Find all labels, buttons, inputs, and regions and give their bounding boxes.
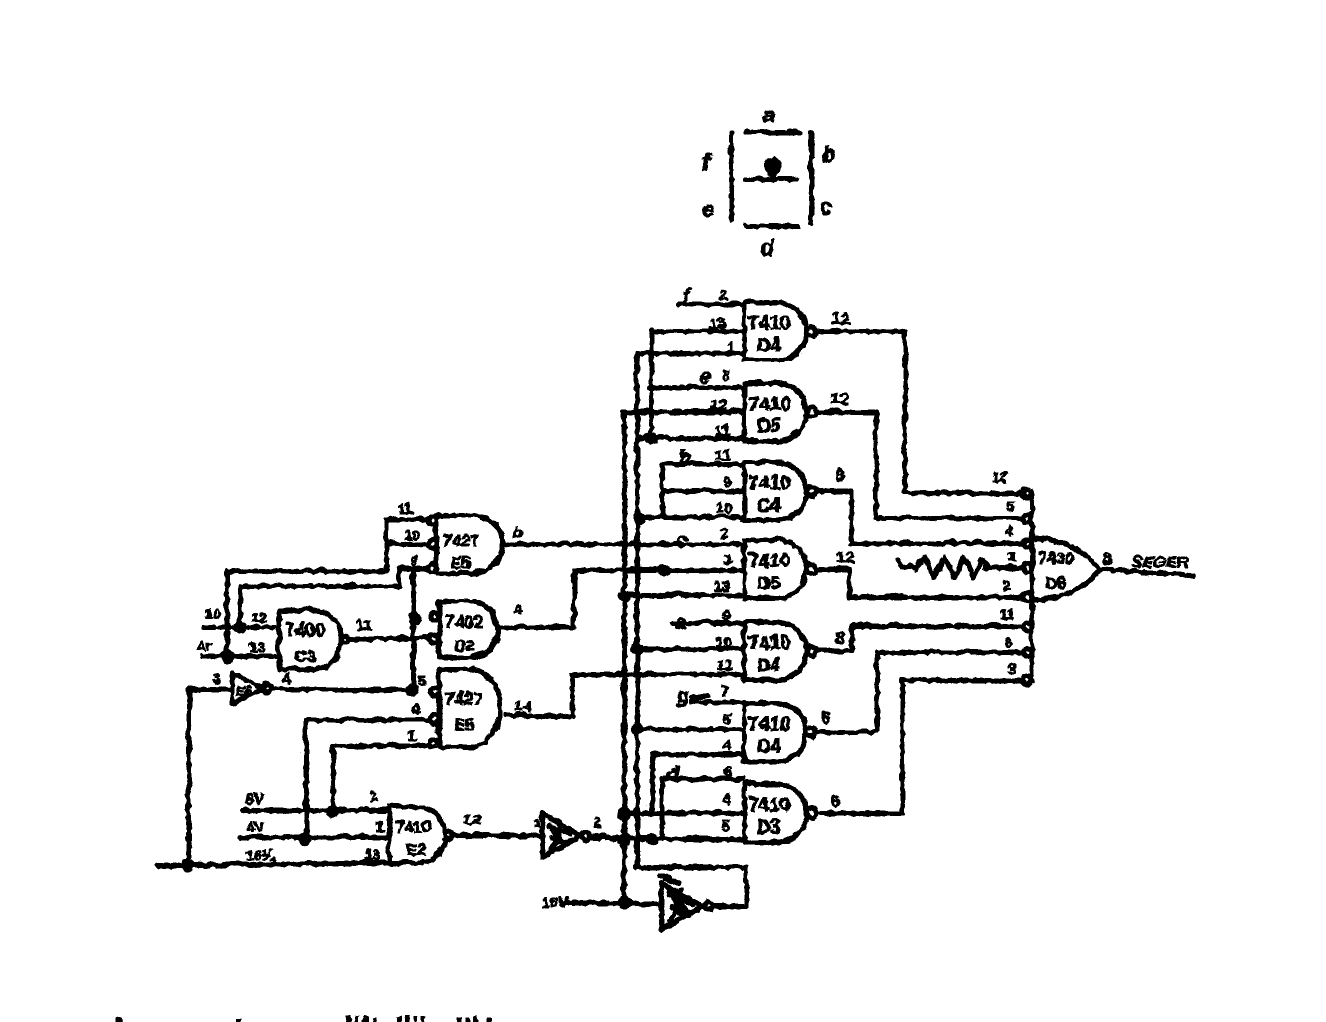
svg-text:SEGER: SEGER [1131, 553, 1187, 570]
svg-text:1: 1 [1007, 547, 1015, 563]
svg-text:4: 4 [281, 669, 290, 686]
svg-text:10: 10 [204, 604, 220, 620]
svg-text:8: 8 [1101, 548, 1110, 567]
svg-text:16V: 16V [540, 893, 567, 910]
svg-text:5: 5 [416, 672, 424, 689]
svg-text:13: 13 [708, 314, 725, 331]
svg-text:7410: 7410 [747, 393, 789, 414]
svg-text:a: a [674, 611, 685, 632]
svg-text:Δr: Δr [195, 636, 211, 652]
svg-text:b: b [821, 141, 834, 166]
svg-text:8: 8 [721, 366, 729, 383]
svg-text:8: 8 [834, 465, 843, 484]
svg-text:D6: D6 [1044, 574, 1065, 591]
svg-text:E2: E2 [405, 841, 425, 858]
svg-text:7402: 7402 [444, 611, 482, 630]
svg-text:5: 5 [1006, 497, 1014, 513]
svg-text:10: 10 [714, 499, 731, 516]
svg-text:7400: 7400 [284, 619, 324, 639]
svg-text:11: 11 [714, 446, 730, 463]
svg-text:5: 5 [720, 817, 728, 834]
svg-text:10: 10 [714, 633, 731, 650]
svg-text:6: 6 [723, 762, 731, 779]
svg-text:7: 7 [719, 682, 727, 699]
svg-text:c: c [676, 530, 687, 551]
svg-text:14: 14 [514, 697, 531, 714]
svg-text:D5: D5 [756, 572, 779, 592]
svg-text:e: e [701, 197, 713, 220]
svg-text:D4: D4 [756, 654, 779, 674]
svg-text:2: 2 [719, 524, 727, 541]
svg-text:2: 2 [718, 285, 726, 302]
svg-text:11: 11 [998, 605, 1013, 621]
svg-text:4: 4 [411, 700, 420, 717]
svg-text:1: 1 [407, 726, 415, 743]
svg-text:3: 3 [212, 669, 220, 686]
svg-text:7430: 7430 [1037, 549, 1073, 566]
svg-text:7410: 7410 [747, 632, 789, 653]
svg-text:9: 9 [721, 606, 729, 623]
svg-text:e: e [699, 366, 710, 387]
svg-text:5: 5 [722, 710, 730, 727]
svg-text:7410: 7410 [747, 550, 789, 571]
svg-text:7410: 7410 [394, 818, 430, 835]
svg-text:2: 2 [369, 787, 377, 804]
svg-text:9: 9 [722, 472, 730, 489]
svg-text:13: 13 [248, 638, 264, 654]
svg-text:1: 1 [726, 338, 734, 355]
svg-text:C3: C3 [293, 646, 315, 665]
svg-text:12: 12 [463, 810, 480, 827]
svg-text:d: d [759, 234, 773, 259]
svg-text:13: 13 [364, 846, 378, 861]
svg-text:9: 9 [409, 551, 417, 567]
svg-text:11: 11 [716, 656, 732, 673]
svg-text:4: 4 [721, 736, 730, 753]
svg-text:4V: 4V [245, 818, 263, 835]
svg-text:12: 12 [830, 308, 849, 327]
svg-text:12: 12 [991, 468, 1007, 484]
svg-text:8V: 8V [244, 790, 262, 807]
svg-text:D4: D4 [756, 334, 779, 354]
svg-text:E5: E5 [450, 554, 470, 571]
svg-text:D4: D4 [756, 735, 779, 755]
svg-text:6: 6 [830, 790, 839, 809]
svg-text:7410: 7410 [747, 713, 789, 734]
svg-text:12: 12 [829, 388, 848, 407]
svg-text:3: 3 [1007, 660, 1015, 676]
svg-text:8: 8 [834, 627, 843, 646]
svg-text:4: 4 [1004, 522, 1012, 538]
svg-text:7410: 7410 [747, 472, 789, 493]
svg-text:10: 10 [403, 526, 419, 542]
svg-text:E5: E5 [453, 716, 473, 733]
svg-text:1: 1 [375, 817, 383, 834]
svg-text:C4: C4 [756, 494, 779, 514]
svg-text:11: 11 [355, 616, 371, 633]
svg-text:4: 4 [512, 600, 521, 617]
svg-text:7410: 7410 [747, 312, 789, 333]
svg-text:g: g [675, 685, 688, 706]
svg-text:11: 11 [397, 499, 412, 515]
svg-text:7427: 7427 [441, 530, 479, 549]
svg-text:4: 4 [721, 790, 730, 807]
svg-text:E6: E6 [236, 683, 251, 697]
svg-text:c: c [819, 195, 831, 218]
svg-text:D3: D3 [756, 816, 779, 836]
svg-text:D5: D5 [756, 415, 779, 435]
svg-text:1: 1 [723, 550, 731, 567]
svg-text:2: 2 [592, 813, 600, 830]
svg-text:12: 12 [834, 547, 853, 566]
svg-text:f: f [700, 146, 711, 176]
svg-text:6: 6 [820, 707, 829, 726]
svg-text:7427: 7427 [444, 688, 482, 707]
svg-text:1: 1 [532, 814, 540, 830]
svg-text:b: b [512, 522, 522, 541]
svg-text:11: 11 [713, 421, 729, 438]
svg-text:b: b [678, 447, 690, 468]
svg-text:D2: D2 [453, 637, 474, 654]
svg-text:6: 6 [1003, 633, 1011, 649]
svg-text:a: a [761, 101, 773, 126]
svg-text:12: 12 [709, 395, 726, 412]
svg-text:7410: 7410 [747, 794, 789, 815]
svg-text:12: 12 [250, 608, 266, 624]
svg-text:d: d [666, 763, 678, 784]
svg-text:2: 2 [1001, 576, 1009, 592]
svg-text:16¼: 16¼ [244, 846, 275, 863]
svg-text:13: 13 [712, 577, 729, 594]
